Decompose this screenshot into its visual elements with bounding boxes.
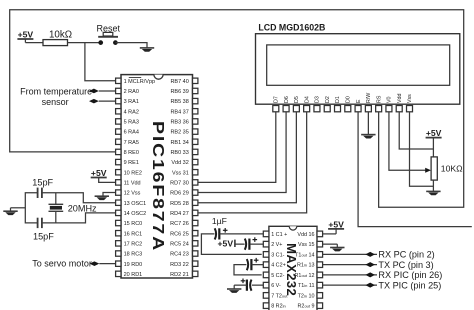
LCD pin RS [376,106,382,112]
MAX232 pin 14 [317,252,323,258]
PIC pin 12 12 Vss [116,190,121,195]
wire C4 to pin2 [250,243,264,245]
svg-text:RX PC (pin 2): RX PC (pin 2) [378,250,434,260]
wire/arrow T1out RX PC [323,253,377,255]
svg-text:Vdd 32: Vdd 32 [171,160,188,166]
MAX232 pin 7 [263,293,269,299]
wire osc loop left + branches [25,193,37,223]
MAX232 pin 10 [317,293,323,299]
LCD display window [267,45,450,85]
PIC pin 25 RC6 25 [193,231,198,236]
wire reset switch to ground [115,43,147,48]
PIC pin 4 4 RA2 [116,109,121,114]
svg-text:7 RA5: 7 RA5 [124,140,139,146]
PIC pin 10 10 RE2 [116,170,121,175]
svg-text:RB0 33: RB0 33 [170,150,188,156]
svg-text:18 RC3: 18 RC3 [124,252,143,258]
svg-text:RX PIC (pin 26): RX PIC (pin 26) [378,270,442,280]
svg-text:Vss 31: Vss 31 [172,170,189,176]
svg-text:RD7 30: RD7 30 [170,181,189,187]
svg-text:10KΩ: 10KΩ [441,164,463,174]
PIC pin 6 6 RA4 [116,129,121,134]
svg-text:RD6 29: RD6 29 [170,191,189,197]
MAX232 pin 9 [317,303,323,309]
svg-text:To servo motor: To servo motor [32,258,92,268]
PIC pin 13 13 OSC1 [116,200,121,205]
PIC pin 5 5 RA3 [116,119,121,124]
svg-text:RD4 27: RD4 27 [170,211,189,217]
svg-text:RB2 35: RB2 35 [170,130,188,136]
svg-text:15pF: 15pF [32,177,53,187]
svg-text:RC6 25: RC6 25 [170,231,189,237]
svg-text:3 RA1: 3 RA1 [124,99,139,105]
svg-text:1 MCLR/Vpp: 1 MCLR/Vpp [124,79,156,85]
wire resistor to reset switch [68,42,99,44]
svg-text:+5V: +5V [426,128,442,138]
svg-text:4 C2+: 4 C2+ [271,263,286,269]
svg-text:D2: D2 [325,96,331,103]
MAX232 pin 16 [317,231,323,237]
LCD pin D5 [293,106,299,112]
wire +5V to pot [432,138,434,158]
PIC pin 3 3 RA1 [116,98,121,103]
svg-text:RC5 24: RC5 24 [170,241,189,247]
wire LCD Vdd to +5V [399,112,433,149]
svg-text:20 RD1: 20 RD1 [124,272,143,278]
PIC pin 30 RD7 30 [193,180,198,185]
wire/arrow T1in TX PIC [323,284,377,286]
svg-text:TX PIC (pin 25): TX PIC (pin 25) [378,280,441,290]
wire pin15 to ground [323,243,338,245]
svg-text:15 RC0: 15 RC0 [124,221,143,227]
wire C3 to pin3 [201,234,261,255]
svg-text:RC7 26: RC7 26 [170,221,189,227]
PIC pin 19 19 RD0 [116,261,121,266]
PIC pin 2 2 RA0 [116,88,121,93]
wire C3 to pin1 [220,233,264,235]
wire LCD D5 to PIC RD5 pin28 [198,112,296,203]
PIC pin 7 7 RA5 [116,139,121,144]
capacitor C1 15pF [37,188,39,198]
svg-text:D1: D1 [335,96,341,103]
wire C5 to pin5 [234,265,262,275]
svg-text:5 C2-: 5 C2- [271,273,284,279]
PIC pin 37 RB4 37 [193,109,198,114]
resistor R1 10kOhm [43,40,68,46]
PIC pin 24 RC5 24 [193,241,198,246]
svg-text:MAX232: MAX232 [284,243,299,296]
wire +5V to resistor [25,42,43,44]
wire C5 to pin4 [252,264,264,266]
svg-text:From temperature: From temperature [20,86,92,96]
wire C6 to pin6 [252,284,263,286]
LCD pin D0 [345,106,351,112]
LCD pin V0 [386,106,392,112]
LCD pin R/W [365,106,371,112]
wire top branch to OSC1 pin 13 [42,193,116,203]
svg-text:17 RC2: 17 RC2 [124,241,143,247]
PIC pin 8 8 RE0 [116,149,121,154]
svg-text:E: E [356,99,362,103]
PIC pin 21 RD2 21 [193,271,198,276]
svg-text:V0: V0 [387,96,393,103]
PIC pin 28 RD5 28 [193,200,198,205]
svg-text:D3: D3 [315,96,321,103]
svg-text:RD3 22: RD3 22 [170,262,189,268]
PIC pin 36 RB3 36 [193,119,198,124]
wire LCD R/W to ground [367,112,369,135]
MAX232 pin 5 [263,272,269,278]
MAX232 pin 4 [263,262,269,268]
capacitor C3 1uF [215,228,216,239]
wire pin16 to +5V [323,233,337,235]
capacitor C5 [247,259,248,270]
PIC pin 26 RC7 26 [193,220,198,225]
wire pin12 Vss to ground [103,193,116,197]
MAX232 pin 6 [263,282,269,288]
svg-text:RB4 37: RB4 37 [170,109,188,115]
svg-text:19 RD0: 19 RD0 [124,262,143,268]
svg-text:RC4 23: RC4 23 [170,252,189,258]
crystal X1 20MHz [55,193,57,205]
PIC pin 1 1 MCLR/Vpp [116,78,121,83]
MAX232 pin 3 [263,252,269,258]
svg-text:RB3 36: RB3 36 [170,120,188,126]
ground (MAX232 Vss) [330,247,344,249]
MAX232 pin 8 [263,303,269,309]
svg-text:3 C1-: 3 C1- [271,252,284,258]
PIC pin 23 RC4 23 [193,251,198,256]
LCD pin D2 [324,106,330,112]
svg-text:RD5 28: RD5 28 [170,201,189,207]
svg-text:2 V+: 2 V+ [271,242,282,248]
wire LCD D7 to PIC RD7 pin30 [198,112,276,183]
LCD pin D6 [283,106,289,112]
svg-text:1 C1 +: 1 C1 + [271,232,287,238]
svg-text:8 RE0: 8 RE0 [124,150,139,156]
wire LCD D6 to PIC RD6 pin29 [198,112,286,193]
PIC pin 22 RD3 22 [193,261,198,266]
LCD pin D1 [335,106,341,112]
svg-text:R/W: R/W [366,93,372,103]
svg-text:10kΩ: 10kΩ [49,30,72,41]
svg-text:6 RA4: 6 RA4 [124,130,139,136]
wire LCD D4 to PIC RD4 pin27 [198,112,307,213]
MAX232 pin 13 [317,262,323,268]
svg-text:PIC16F877A: PIC16F877A [149,121,167,252]
svg-text:RB1 34: RB1 34 [170,140,188,146]
PIC pin 38 RB5 38 [193,98,198,103]
LCD pin E [355,106,361,112]
wire C6 to ground [234,284,247,286]
MAX232 pin 12 [317,272,323,278]
PIC pin 40 RB7 40 [193,78,198,83]
arrow input RA1 [89,99,99,104]
pushbutton SW1 Reset [98,36,118,38]
wire LCD RS wrap-around to PIC RE0 pin8 [10,10,464,208]
MAX232 pin 1 [263,231,269,237]
svg-text:15pF: 15pF [33,232,54,242]
svg-text:6 V-: 6 V- [271,283,281,289]
ground (MAX232 C6) [227,288,241,290]
svg-text:+5V: +5V [218,239,234,249]
PIC pin 15 15 RC0 [116,220,121,225]
LCD pin D3 [314,106,320,112]
PIC pin 31 Vss 31 [193,170,198,175]
LCD pin D7 [273,106,279,112]
wire LCD Vss to pot bottom [410,112,434,187]
svg-text:RS: RS [376,95,382,103]
PIC pin 39 RB6 39 [193,88,198,93]
svg-text:D6: D6 [284,96,290,103]
svg-text:D5: D5 [294,96,300,103]
svg-text:10 RE2: 10 RE2 [124,170,142,176]
svg-text:4 RA2: 4 RA2 [124,109,139,115]
svg-text:1µF: 1µF [212,216,227,226]
arrow output RD0 servo [90,261,100,266]
svg-text:Vss 15: Vss 15 [298,242,314,248]
PIC pin 16 16 RC1 [116,231,121,236]
svg-text:LCD MGD1602B: LCD MGD1602B [258,23,325,33]
LCD pin Vdd [396,106,402,112]
svg-text:11 Vdd: 11 Vdd [124,181,141,187]
svg-text:RD2 21: RD2 21 [170,272,189,278]
svg-text:RB5 38: RB5 38 [170,99,188,105]
svg-text:5 RA3: 5 RA3 [124,120,139,126]
capacitor C2 15pF [37,218,39,228]
PIC pin 9 9 RE1 [116,159,121,164]
PIC pin 18 18 RC3 [116,251,121,256]
wire bottom branch to OSC2 pin 14 [42,213,116,223]
wire osc loop to ground [11,207,26,209]
svg-text:9 RE1: 9 RE1 [124,160,139,166]
node MCLR junction wire to pin 1 [85,43,116,81]
capacitor C4 [235,243,245,245]
svg-text:16 RC1: 16 RC1 [124,231,143,237]
ground (pot) [426,190,440,192]
PIC pin 17 17 RC2 [116,241,121,246]
wire pot to ground [432,180,434,192]
MAX232 body U2 [269,226,317,310]
ground (LCD R/W) [361,134,375,136]
svg-text:T2in 10: T2in 10 [298,293,315,299]
svg-text:Vss: Vss [407,94,413,103]
svg-text:TX PC (pin 3): TX PC (pin 3) [378,260,433,270]
LCD pin D4 [304,106,310,112]
PIC pin 14 14 OSC2 [116,210,121,215]
ground (oscillator) [3,210,17,212]
svg-text:Vdd: Vdd [397,94,403,103]
svg-text:13 OSC1: 13 OSC1 [124,201,147,207]
capacitor C6 [250,280,251,291]
MAX232 pin 11 [317,282,323,288]
svg-text:D7: D7 [274,96,280,103]
wire LCD E (to edge) [358,112,472,227]
arrow input RA0 [89,89,99,94]
svg-text:2 RA0: 2 RA0 [124,89,139,95]
ground (PIC Vss) [95,195,109,197]
svg-text:D0: D0 [345,96,351,103]
LCD pin Vss [407,106,413,112]
PIC pin 34 RB1 34 [193,139,198,144]
svg-text:sensor: sensor [42,97,69,107]
wire/arrow R1in TX PC [323,264,377,266]
svg-text:20MHz: 20MHz [68,204,97,214]
potentiometer RV1 10KOhm [431,157,437,180]
svg-text:RB7 40: RB7 40 [170,79,188,85]
PIC pin 11 11 Vdd [116,180,121,185]
PIC pin 29 RD6 29 [193,190,198,195]
PIC pin 20 20 RD1 [116,271,121,276]
ground (reset) [140,47,154,49]
PIC pin 35 RB2 35 [193,129,198,134]
PIC pin 27 RD4 27 [193,210,198,215]
MAX232 pin 2 [263,241,269,247]
svg-text:14 OSC2: 14 OSC2 [124,211,147,217]
PIC pin 33 RB0 33 [193,149,198,154]
svg-text:RB6 39: RB6 39 [170,89,188,95]
svg-text:Vdd 16: Vdd 16 [297,232,314,238]
PIC pin 32 Vdd 32 [193,159,198,164]
PIC16F877A body U1 [121,75,193,278]
wire/arrow R1out RX PIC [323,274,377,276]
MAX232 pin 15 [317,241,323,247]
wire LCD V0 to potentiometer wiper [389,112,426,171]
LCD module outer box [256,34,460,105]
svg-text:D4: D4 [304,96,310,103]
svg-text:12 Vss: 12 Vss [124,191,141,197]
